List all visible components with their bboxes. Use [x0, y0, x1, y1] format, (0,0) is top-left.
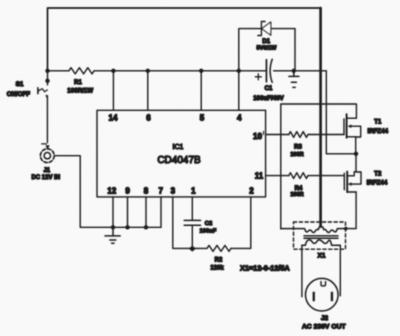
svg-text:100R: 100R — [290, 192, 303, 198]
svg-text:D1: D1 — [262, 39, 270, 45]
svg-text:C1: C1 — [265, 86, 273, 92]
wire pin 4 column — [238, 71, 240, 111]
svg-text:5: 5 — [200, 114, 205, 123]
svg-text:R3: R3 — [294, 144, 302, 150]
svg-text:X1=12-0-12/5A: X1=12-0-12/5A — [240, 264, 290, 273]
wire pin 6 column — [147, 71, 149, 111]
node C1 / ground junction — [292, 69, 296, 73]
wire pin 14 column — [112, 71, 114, 111]
wire R2 to pin 2 — [231, 197, 251, 248]
svg-text:5V6/1W: 5V6/1W — [257, 46, 278, 52]
wire T1 drain to transformer primary left — [281, 104, 357, 229]
node pin6 column — [146, 69, 150, 73]
svg-text:14: 14 — [109, 114, 118, 123]
svg-text:2: 2 — [249, 187, 254, 196]
wire rail to R1 — [48, 70, 69, 72]
node pin14 column — [111, 69, 115, 73]
node pin12/bus — [111, 225, 115, 229]
capacitor C2 — [184, 197, 217, 248]
wire top +12V rail — [48, 8, 321, 71]
svg-text:10: 10 — [253, 132, 262, 141]
zener diode D1 — [257, 22, 278, 52]
resistor R4 — [289, 173, 308, 179]
svg-text:100uF/40V: 100uF/40V — [253, 95, 284, 102]
wire pin 9 down — [127, 197, 129, 227]
svg-text:4: 4 — [237, 114, 242, 123]
wire D1 branch — [239, 29, 295, 71]
svg-text:1: 1 — [191, 187, 196, 196]
pin 10 tick — [263, 131, 265, 134]
shield dashed box — [294, 222, 346, 249]
svg-text:C2: C2 — [205, 221, 212, 227]
svg-text:R1: R1 — [74, 80, 82, 86]
node primary right lead — [344, 227, 348, 231]
wire pin 5 column — [200, 71, 202, 111]
core bars — [304, 235, 338, 237]
node pin9/bus — [125, 225, 129, 229]
wire pin 10 to R3 — [266, 134, 289, 136]
resistor R2 — [207, 245, 231, 251]
wire R3 to T1 gate — [308, 134, 344, 136]
capacitor C1 (electrolytic, in line) — [253, 59, 284, 102]
wire T2 source to transformer primary right — [346, 192, 356, 229]
resistor R1 — [69, 68, 94, 74]
svg-text:IC1: IC1 — [173, 144, 184, 151]
wire junction to T2 drain — [354, 154, 356, 172]
secondary winding — [302, 240, 340, 245]
node C2/R2/pin3 junction — [189, 246, 196, 252]
transistor T2 IRFZ44 — [344, 171, 388, 192]
wire 12V feed to transformer center tap (thick) — [319, 8, 322, 226]
svg-text:ON/OFF: ON/OFF — [7, 91, 31, 98]
wire secondary left to J2 — [301, 245, 303, 296]
primary winding — [281, 227, 346, 233]
switch S1 — [7, 71, 50, 143]
wire J1 to ground bus — [54, 156, 161, 228]
svg-text:100R: 100R — [290, 152, 303, 158]
svg-text:S1: S1 — [16, 81, 24, 88]
svg-text:J2: J2 — [321, 315, 329, 322]
ground (battery minus) — [105, 227, 120, 243]
svg-text:11: 11 — [255, 172, 264, 181]
node junction R1/S1 — [45, 69, 49, 73]
wire R1 to IC supply rail — [94, 70, 266, 72]
connector J2 AC outlet — [302, 278, 347, 330]
wire secondary right to J2 — [339, 245, 341, 295]
transistor T1 IRFZ44 — [344, 114, 389, 138]
wire T1 source down — [355, 137, 357, 154]
node pin4 column — [237, 69, 241, 73]
wire R4 to T2 gate — [308, 175, 344, 177]
svg-text:100R/1W: 100R/1W — [67, 88, 93, 95]
svg-text:J1: J1 — [43, 168, 50, 174]
node source/drain junction — [354, 152, 358, 156]
wire C1 right to ground node and over to source return — [274, 70, 327, 72]
svg-text:7: 7 — [158, 187, 163, 196]
wire pin 7 down — [160, 197, 162, 227]
svg-text:IRFZ44: IRFZ44 — [367, 180, 388, 187]
svg-text:6: 6 — [146, 114, 151, 123]
svg-text:12: 12 — [107, 187, 116, 196]
svg-text:3: 3 — [171, 187, 176, 196]
svg-text:8: 8 — [144, 187, 149, 196]
svg-text:120k: 120k — [210, 265, 224, 271]
wire pin 3 down and along — [173, 197, 193, 248]
transformer X1 — [281, 222, 346, 260]
svg-text:IRFZ44: IRFZ44 — [367, 128, 388, 135]
node pin5 column — [199, 69, 203, 73]
wire pin 11 to R4 — [266, 175, 289, 177]
wire pin 8 down — [145, 197, 147, 227]
svg-text:9: 9 — [125, 187, 130, 196]
svg-text:R2: R2 — [215, 258, 223, 264]
svg-text:T2: T2 — [374, 171, 382, 177]
resistor R3 — [289, 132, 308, 138]
ground (5V6 rail) — [289, 71, 299, 88]
svg-text:R4: R4 — [295, 186, 303, 192]
connector J1 DC input — [31, 144, 60, 181]
svg-text:CD4047B: CD4047B — [157, 155, 201, 166]
svg-text:T1: T1 — [374, 120, 382, 126]
svg-text:100nF: 100nF — [200, 228, 217, 234]
wire junction to R2 — [192, 247, 207, 249]
node pin8/bus — [144, 225, 148, 229]
wire ground net down right side — [326, 71, 355, 154]
IC IC1 CD4047B body — [97, 110, 266, 197]
wire pin 12 down — [112, 197, 114, 227]
svg-text:AC 230V OUT: AC 230V OUT — [302, 323, 347, 330]
svg-text:X1: X1 — [318, 253, 326, 260]
svg-text:DC 12V IN: DC 12V IN — [31, 175, 60, 181]
